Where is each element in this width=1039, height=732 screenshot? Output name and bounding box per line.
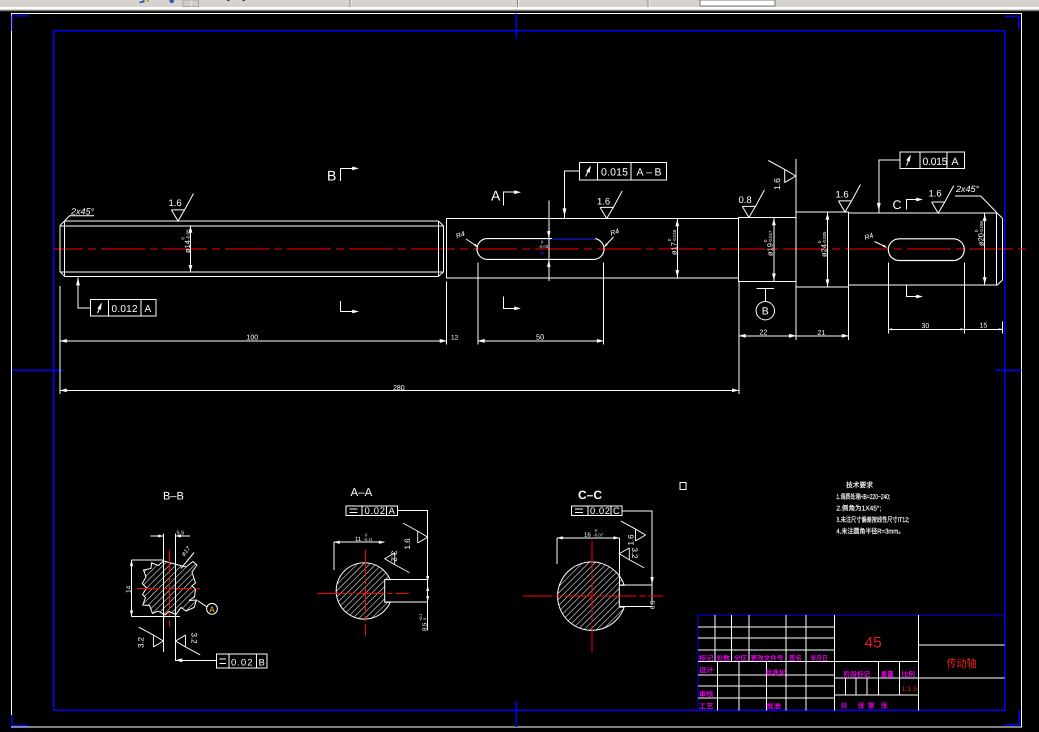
svg-text:1:1.5: 1:1.5 [902, 686, 918, 693]
svg-text:0.015: 0.015 [923, 156, 948, 168]
roughness 1.6 C-C [621, 521, 646, 545]
svg-text:0.8: 0.8 [739, 195, 752, 206]
svg-text:50: 50 [536, 332, 544, 341]
feature frame 0.02 B [176, 654, 268, 668]
toolbar icon fragment (blue circle) [170, 0, 175, 3]
svg-text:14: 14 [126, 585, 133, 593]
chamfer 2x45 left [60, 221, 444, 276]
shaft section phi14 threaded [60, 221, 444, 276]
svg-text:-0.03: -0.03 [539, 244, 549, 249]
R4 label left keyway [455, 231, 479, 249]
dim 11 A-A [334, 533, 385, 571]
svg-text:12: 12 [451, 334, 459, 341]
thread label leader B-B [180, 545, 194, 569]
title block labels magenta [699, 654, 915, 710]
svg-text:1.调质处理HB=220~240;: 1.调质处理HB=220~240; [836, 493, 890, 501]
roughness 1.6 on phi24 [836, 185, 861, 213]
svg-text:B: B [259, 657, 265, 668]
svg-text:-0.11: -0.11 [364, 537, 374, 542]
dim phi20 [974, 214, 987, 285]
svg-text:A: A [389, 506, 396, 517]
chamfer label 2x45 right [955, 184, 997, 213]
keyway slot phi17 [477, 239, 604, 260]
svg-text:0.02: 0.02 [590, 506, 610, 517]
svg-text:分区: 分区 [734, 654, 748, 662]
dim 15 [961, 323, 1003, 331]
svg-text:审核: 审核 [699, 691, 714, 699]
roughness 1.6 on phi17 [597, 191, 622, 219]
svg-text:2.倒角为1X45°;: 2.倒角为1X45°; [836, 504, 881, 512]
keyway depth text C-C [650, 600, 657, 609]
svg-text:年月日: 年月日 [811, 654, 829, 662]
section A-A keyway ext lines [385, 580, 428, 603]
svg-text:-0.05: -0.05 [186, 229, 191, 240]
svg-text:-0.005: -0.005 [822, 231, 827, 244]
dim 21 [789, 330, 849, 338]
corner mark bottom-right [1004, 710, 1019, 725]
extension lines bottom dims [60, 263, 1003, 395]
svg-text:2x45°: 2x45° [70, 207, 95, 217]
section arrow C bottom / keyway leader [906, 285, 923, 298]
svg-text:5.5: 5.5 [177, 531, 185, 537]
feature frame 0.02 A [346, 506, 428, 631]
feature frame 0.02 C [572, 506, 654, 605]
centering mark bottom [515, 701, 517, 727]
svg-text:ø14: ø14 [183, 240, 192, 253]
svg-text:设计: 设计 [699, 666, 714, 674]
svg-text:-0.018: -0.018 [672, 229, 677, 242]
svg-text:比例: 比例 [902, 670, 916, 678]
roughness 1.6 near C [929, 186, 954, 214]
svg-text:标准化: 标准化 [766, 669, 786, 677]
svg-text:第: 第 [868, 702, 875, 710]
section C-C keyway ext lines [619, 585, 652, 606]
toolbar icon dots [227, 0, 230, 1]
dim 14 B-B [126, 560, 181, 616]
svg-text:传动轴: 传动轴 [947, 658, 977, 671]
toolbar combobox [700, 0, 775, 6]
feature control frame 0.015 A right [877, 152, 965, 213]
svg-text:ø17: ø17 [670, 242, 679, 255]
dim phi17 [667, 219, 679, 277]
centering mark left [12, 369, 63, 371]
section C-C centerlines [522, 542, 663, 653]
svg-text:-0.07: -0.07 [594, 533, 604, 538]
svg-text:技术要求: 技术要求 [846, 481, 873, 490]
svg-text:ø20: ø20 [977, 233, 986, 246]
svg-text:3.2: 3.2 [137, 636, 146, 648]
title block grid white [698, 615, 1005, 710]
svg-text:1.6: 1.6 [772, 178, 782, 190]
svg-text:C: C [613, 506, 620, 517]
ext line above phi24 shoulder [795, 159, 797, 212]
selected keyway line blue [552, 238, 595, 240]
svg-text:3.2: 3.2 [190, 633, 199, 645]
svg-text:-0.065: -0.065 [979, 220, 984, 233]
dim 280 [60, 385, 739, 392]
svg-text:0.02: 0.02 [365, 506, 386, 517]
section arrow B top [327, 167, 359, 184]
roughness 3.2 right B-B [176, 633, 201, 655]
toolbar separator 1 [350, 0, 351, 7]
svg-text:-0.017: -0.017 [768, 230, 773, 243]
dim 100 [60, 334, 447, 343]
section arrow A top [491, 188, 521, 206]
roughness 3.2 C-C [619, 548, 644, 568]
svg-text:B: B [762, 306, 769, 318]
svg-text:更改文件号: 更改文件号 [751, 654, 784, 662]
section arrow B bottom [341, 301, 359, 313]
dim 50 [478, 332, 604, 343]
roughness 0.8 on phi19 [739, 190, 765, 218]
shaft section phi20 [849, 213, 1003, 285]
section A-A centerlines [318, 550, 409, 636]
centering mark right [995, 369, 1021, 371]
R4 label phi20 keyway [864, 232, 888, 248]
svg-text:8.5: 8.5 [422, 622, 429, 631]
svg-text:张: 张 [881, 702, 888, 710]
chamfer 2x45 right end [997, 213, 1003, 285]
roughness 3.2 left B-B [137, 627, 164, 648]
svg-text:11: 11 [355, 536, 362, 543]
roughness 1.6 rotated on shoulder [768, 161, 796, 191]
dim phi24 [817, 213, 829, 287]
svg-text:1.6: 1.6 [929, 189, 942, 200]
svg-text:4.未注圆角半径R=3mm。: 4.未注圆角半径R=3mm。 [836, 528, 904, 536]
svg-text:3.未注尺寸偏差按线性尺寸IT12;: 3.未注尺寸偏差按线性尺寸IT12; [836, 516, 909, 524]
toolbar icon fragment (pen/zoom) [139, 0, 146, 3]
svg-text:重量: 重量 [881, 670, 894, 678]
svg-text:阶段标记: 阶段标记 [844, 670, 871, 678]
title block outer blue [698, 615, 1005, 710]
dim phi19 [763, 218, 776, 281]
NOTES [836, 481, 909, 536]
section A-A circle hatched [336, 563, 390, 619]
svg-text:0: 0 [423, 618, 427, 620]
svg-text:A–A: A–A [351, 487, 373, 499]
roughness 1.6 on phi14 [169, 194, 194, 222]
keyway depth dim A-A [419, 576, 429, 631]
roughness 1.6 A-A [403, 523, 428, 549]
svg-text:批准: 批准 [767, 703, 782, 711]
roughness 3.2 A-A [385, 551, 410, 573]
TITLEBLOCK [698, 615, 1005, 711]
svg-text:100: 100 [247, 334, 259, 341]
svg-text:C–C: C–C [578, 488, 602, 502]
svg-text:标记: 标记 [699, 654, 714, 662]
keyway width dim 6 [539, 201, 551, 282]
chamfer label 2x45 left [65, 207, 95, 221]
dim 30 [888, 323, 1002, 331]
svg-text:A: A [145, 304, 152, 315]
dim 22 [739, 330, 849, 338]
svg-text:45: 45 [865, 635, 882, 652]
dim phi14 [181, 226, 193, 272]
tiny square mark [680, 482, 686, 489]
centerline main shaft [54, 248, 1031, 250]
section B-B ext lines 5.5 [151, 534, 191, 662]
svg-text:1.6: 1.6 [169, 198, 182, 209]
svg-text:3.2: 3.2 [390, 551, 399, 563]
svg-text:1.6: 1.6 [403, 538, 412, 550]
svg-text:6.5: 6.5 [650, 600, 657, 609]
section C-C circle hatched [558, 562, 625, 630]
dim 16 C-C [557, 528, 619, 585]
svg-text:B–B: B–B [163, 490, 184, 502]
svg-text:B: B [327, 167, 336, 183]
svg-text:6: 6 [541, 250, 545, 257]
svg-text:C: C [893, 198, 902, 212]
svg-text:工艺: 工艺 [699, 703, 714, 711]
svg-text:ø24: ø24 [820, 244, 829, 257]
svg-text:30: 30 [922, 323, 930, 330]
R4 label right of keyway [603, 228, 620, 248]
svg-text:共: 共 [841, 702, 848, 710]
section arrow C top [893, 198, 924, 213]
feature control frame 0.015 A-B [563, 163, 667, 219]
datum B symbol [756, 288, 774, 320]
svg-text:A: A [209, 605, 215, 614]
svg-text:张: 张 [858, 702, 865, 710]
svg-text:A: A [491, 188, 501, 204]
section B-B spline profile hatched [142, 561, 197, 615]
svg-text:签名: 签名 [789, 654, 802, 662]
DIMS [60, 152, 1003, 394]
shaft section phi24 [796, 212, 849, 287]
corner mark top-right [1005, 16, 1019, 30]
svg-text:16: 16 [584, 532, 591, 539]
svg-text:1.6: 1.6 [597, 197, 610, 208]
corner mark top-left [12, 16, 29, 31]
svg-text:0.02: 0.02 [231, 657, 253, 668]
toolbar strip background [0, 0, 1039, 7]
datum A circle B-B [198, 601, 218, 615]
SHAFT [54, 212, 1031, 287]
svg-text:A–B: A–B [637, 167, 662, 179]
section B-B centerlines [137, 550, 202, 627]
svg-text:1.6: 1.6 [836, 190, 849, 201]
toolbar separator 2 [517, 0, 518, 7]
keyway slot phi20 [888, 239, 964, 261]
svg-text:280: 280 [393, 385, 405, 392]
svg-text:A: A [952, 156, 959, 168]
svg-text:1.6: 1.6 [627, 534, 636, 546]
TOOLBAR [0, 0, 1039, 12]
svg-text:22: 22 [760, 330, 768, 337]
svg-text:3.2: 3.2 [630, 548, 639, 560]
svg-text:21: 21 [818, 330, 826, 337]
shaft section phi17 [447, 219, 739, 279]
shaft section phi19 [739, 218, 796, 282]
dim 5.5 arrows [158, 534, 163, 537]
svg-text:处数: 处数 [717, 654, 731, 662]
svg-text:0.012: 0.012 [112, 304, 138, 315]
toolbar sunken button [183, 0, 199, 7]
centering mark top [515, 14, 517, 40]
svg-text:15: 15 [980, 323, 988, 330]
feature control frame 0.012 A [76, 278, 156, 317]
svg-text:0.015: 0.015 [601, 167, 628, 179]
SECTIONS [126, 482, 687, 668]
dim 12 [440, 334, 485, 343]
svg-text:ø19: ø19 [766, 243, 775, 256]
corner mark bottom-left [12, 715, 29, 726]
svg-text:2x45°: 2x45° [955, 184, 980, 194]
section arrow A bottom [503, 297, 521, 311]
toolbar separator 3 [648, 0, 649, 7]
